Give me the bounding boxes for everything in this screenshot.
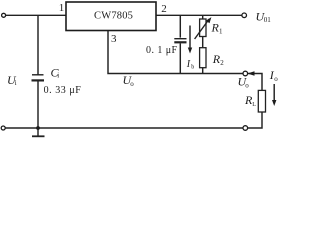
svg-text:3: 3 xyxy=(111,33,117,45)
svg-text:0. 1 μF: 0. 1 μF xyxy=(146,45,178,56)
svg-text:b: b xyxy=(191,65,194,71)
svg-text:0. 33 μF: 0. 33 μF xyxy=(44,85,82,96)
svg-text:1: 1 xyxy=(219,28,223,36)
svg-text:L: L xyxy=(252,102,256,108)
svg-text:2: 2 xyxy=(161,3,167,15)
svg-text:i: i xyxy=(57,72,59,80)
svg-text:1: 1 xyxy=(59,2,65,14)
svg-text:I: I xyxy=(186,59,191,70)
svg-text:o: o xyxy=(130,80,134,88)
svg-text:o: o xyxy=(274,75,278,83)
svg-text:o: o xyxy=(245,82,249,90)
svg-text:CW7805: CW7805 xyxy=(94,11,133,22)
svg-text:01: 01 xyxy=(264,16,272,24)
svg-text:2: 2 xyxy=(220,59,224,67)
svg-text:i: i xyxy=(15,79,17,87)
